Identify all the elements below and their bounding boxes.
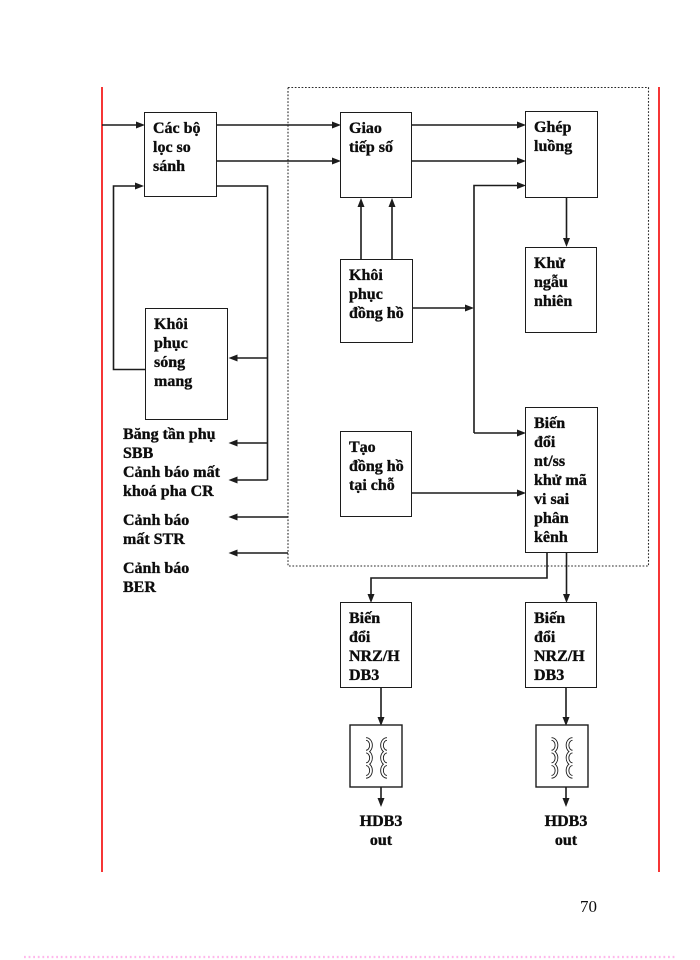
wire A to B upper (217, 122, 341, 129)
transformer K box (350, 725, 402, 787)
block F Khoi phuc song mang (145, 308, 228, 420)
wire H down-left to I (368, 553, 548, 603)
left red margin line (101, 87, 103, 872)
wire B to C lower (412, 158, 526, 165)
label HDB3 out left (341, 812, 421, 850)
wire J to transformer L (563, 688, 570, 726)
wire BER alarm (229, 550, 289, 557)
wire vertical bus x474 with arrow into C (474, 182, 526, 433)
block C Ghep luong (525, 111, 598, 198)
page number 70 (580, 897, 597, 916)
label Canh bao BER (123, 559, 189, 597)
label Canh bao mat STR (123, 511, 189, 549)
wire A to B lower (217, 158, 341, 165)
wire E up to B left (358, 198, 365, 259)
block A Cac bo loc so sanh (144, 112, 217, 197)
wire H down to J (563, 553, 570, 603)
transformer L box (536, 725, 588, 787)
block J Bien doi NRZ/HDB3 right (525, 602, 597, 688)
wire bus to F (229, 355, 268, 362)
wire K output (378, 787, 385, 807)
wire I to transformer K (378, 688, 385, 726)
block I Bien doi NRZ/HDB3 left (340, 602, 412, 688)
wire E to bus (413, 305, 474, 312)
wire B to C upper (412, 122, 526, 129)
block G Tao dong ho tai cho (340, 431, 412, 517)
wire STR alarm (229, 514, 289, 521)
label Canh bao mat khoa pha CR (123, 463, 220, 501)
label HDB3 out right (526, 812, 606, 850)
wire L output (563, 787, 570, 807)
block E Khoi phuc dong ho (340, 259, 413, 343)
dashed frame (288, 88, 649, 567)
block D Khu ngau nhien (525, 247, 597, 333)
right red margin line (658, 87, 660, 872)
wire A right feedback bus x267 (217, 186, 268, 480)
block B Giao tiep so (340, 112, 412, 198)
wire bus to SBB label (229, 440, 268, 447)
wire E up to B right (389, 198, 396, 259)
label Bang tan phu SBB (123, 425, 216, 463)
bottom pink dotted border (24, 956, 676, 958)
wire input to Cac bo loc (102, 122, 145, 129)
wire C down to D (563, 198, 570, 247)
wire bus into H (474, 430, 526, 437)
block H Bien doi nt/ss (525, 407, 598, 553)
wire F feedback to A (114, 183, 146, 370)
wire bus to khoa pha CR label (229, 477, 268, 484)
wire G to H (412, 490, 526, 497)
